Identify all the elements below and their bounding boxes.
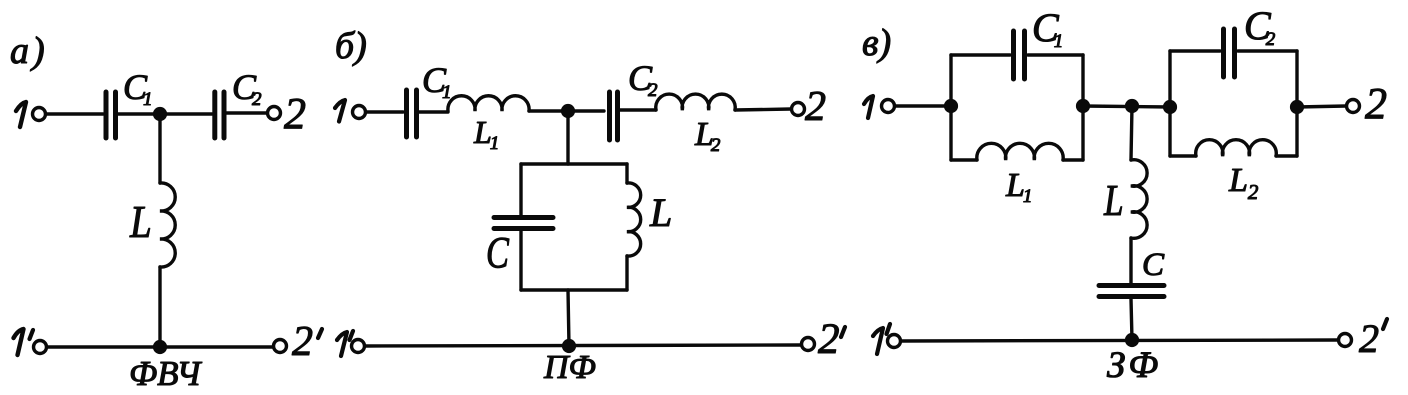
svg-text:L1: L1 bbox=[1005, 167, 1032, 207]
svg-text:C1: C1 bbox=[422, 60, 452, 103]
svg-text:L2: L2 bbox=[1228, 162, 1259, 204]
svg-text:2: 2 bbox=[284, 89, 306, 138]
svg-text:а): а) bbox=[10, 30, 45, 72]
svg-text:L: L bbox=[649, 190, 672, 235]
svg-text:C2: C2 bbox=[232, 67, 262, 110]
svg-text:2: 2 bbox=[818, 316, 840, 363]
svg-text:б): б) bbox=[335, 25, 367, 67]
svg-text:в): в) bbox=[862, 22, 891, 64]
svg-text:L: L bbox=[1103, 175, 1123, 225]
svg-text:ЗФ: ЗФ bbox=[1107, 345, 1161, 386]
svg-text:C1: C1 bbox=[123, 67, 153, 110]
svg-text:ФВЧ: ФВЧ bbox=[129, 354, 202, 393]
svg-text:C2: C2 bbox=[1244, 3, 1276, 50]
svg-text:C: C bbox=[1142, 247, 1165, 283]
svg-text:ПФ: ПФ bbox=[543, 349, 596, 386]
svg-text:2: 2 bbox=[1365, 79, 1387, 128]
svg-text:L: L bbox=[129, 197, 152, 248]
svg-text:C: C bbox=[486, 228, 509, 277]
svg-text:2: 2 bbox=[1359, 316, 1379, 361]
svg-text:2: 2 bbox=[292, 319, 313, 365]
svg-text:L2: L2 bbox=[694, 116, 721, 156]
svg-text:2: 2 bbox=[805, 84, 826, 130]
svg-text:C2: C2 bbox=[628, 58, 658, 101]
svg-text:C1: C1 bbox=[1032, 5, 1063, 52]
svg-text:L1: L1 bbox=[473, 114, 499, 154]
